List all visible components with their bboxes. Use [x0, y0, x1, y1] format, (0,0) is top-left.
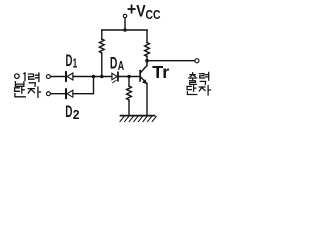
svg-text:A: A — [118, 59, 124, 73]
label DA — [110, 54, 124, 73]
svg-text:+: + — [127, 0, 136, 19]
node input terminal top — [46, 75, 50, 79]
력 — [29, 73, 39, 86]
junction D2 joins — [92, 75, 96, 79]
wire input top to D1 — [51, 76, 66, 78]
svg-text:2: 2 — [73, 108, 80, 122]
wire DA to base — [118, 76, 139, 78]
label D1 — [66, 52, 78, 71]
wire D2 return — [73, 77, 94, 94]
ground — [120, 116, 156, 122]
svg-text:D: D — [65, 103, 72, 121]
diode DA — [112, 72, 118, 82]
svg-text:1: 1 — [73, 56, 78, 70]
자 — [199, 86, 210, 95]
wire emitter down — [146, 84, 148, 116]
node output terminal — [195, 59, 199, 63]
resistor RL (right, collector load) — [145, 30, 150, 65]
label +VCC — [127, 0, 161, 22]
wire input bottom to D2 — [51, 93, 66, 95]
svg-text:Tr: Tr — [152, 62, 169, 82]
label D2 — [65, 103, 79, 122]
junction VCC rail — [123, 28, 127, 32]
wire VCC terminal to rail — [124, 18, 126, 30]
svg-text:D: D — [110, 54, 118, 72]
wire collector output — [147, 60, 195, 62]
wire D1 to DA (main node) — [73, 76, 112, 78]
력 — [200, 72, 209, 84]
자 — [28, 87, 40, 97]
node input terminal bottom — [46, 92, 50, 96]
svg-text:V: V — [136, 2, 145, 20]
resistor R2 (below DA node) — [127, 77, 132, 116]
label output 출력 / 단자 (hand-drawn hangul) — [187, 72, 210, 95]
label input 입력 / 단자 (hand-drawn hangul) — [15, 73, 41, 97]
svg-text:CC: CC — [146, 8, 161, 22]
wire VCC rail — [102, 29, 147, 31]
transistor Tr — [139, 65, 147, 84]
출 — [189, 73, 197, 85]
node +VCC terminal — [123, 14, 126, 17]
resistor R1 (left, to VCC) — [99, 30, 104, 77]
junction output tap — [145, 59, 149, 63]
junction R1 joins — [100, 75, 104, 79]
junction R2 top — [127, 75, 131, 79]
입 — [15, 73, 25, 86]
단 — [187, 86, 197, 95]
diode D2 — [66, 89, 73, 98]
diode D1 — [66, 72, 73, 81]
svg-text:D: D — [66, 52, 73, 70]
단 — [15, 87, 26, 97]
